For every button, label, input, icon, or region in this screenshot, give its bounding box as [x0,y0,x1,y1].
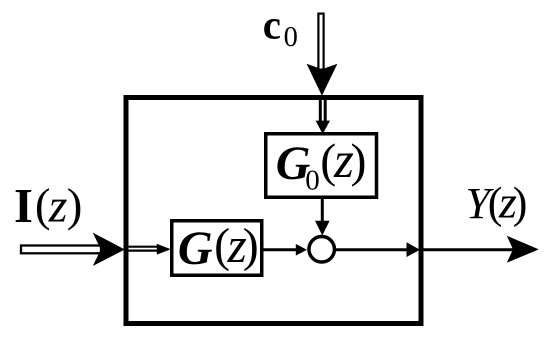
svg-text:): ) [351,135,367,188]
svg-text:G: G [178,222,213,275]
svg-text:c: c [263,2,281,48]
svg-text:0: 0 [284,22,298,53]
svg-text:I: I [14,180,33,233]
svg-text:0: 0 [305,165,320,197]
svg-text:z: z [48,180,68,233]
svg-text:): ) [67,180,83,232]
svg-text:): ) [513,179,528,228]
svg-text:): ) [243,219,259,272]
